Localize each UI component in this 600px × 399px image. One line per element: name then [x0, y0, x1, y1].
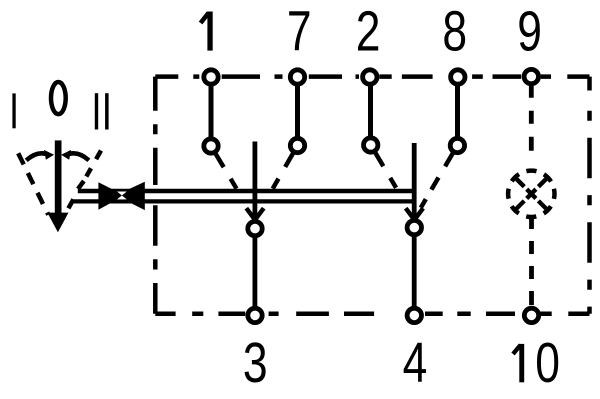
actuator rod pole 2 lower	[412, 236, 417, 307]
lamp X diagonal 2	[516, 179, 546, 209]
terminal 1	[204, 70, 218, 84]
actuator bar top line	[78, 189, 417, 194]
terminal 7	[290, 70, 304, 84]
position mark II bar1	[95, 93, 98, 129]
label 1	[201, 12, 213, 51]
wire terminal7 to fixed contact	[295, 80, 300, 142]
svg-text:0: 0	[535, 331, 560, 395]
fixed contact under 1	[204, 139, 218, 153]
fixed contact under 8	[450, 138, 464, 152]
svg-text:3: 3	[243, 331, 268, 395]
svg-text:8: 8	[442, 0, 467, 63]
movable contact arrow pole 2	[406, 208, 423, 219]
actuator arrow head	[47, 213, 68, 233]
actuator sector right dashed edge	[59, 151, 101, 225]
wire terminal1 to fixed contact	[209, 80, 214, 142]
svg-text:4: 4	[403, 331, 428, 395]
switch body outline (dash-dot box) top edge	[155, 74, 589, 79]
actuator sector left dashed edge	[18, 153, 48, 215]
bottom terminal 10	[524, 308, 538, 322]
bowtie white hourglass	[117, 192, 127, 200]
position mark II bar2	[105, 93, 109, 129]
position mark I	[12, 93, 15, 128]
movable contact circle pole 1	[248, 221, 262, 235]
actuator bar bottom line	[73, 199, 416, 203]
dashed throw line from contact 8	[417, 153, 453, 214]
right curved arrow tail	[70, 153, 89, 160]
terminal 8	[451, 70, 465, 84]
left curved arrow tail	[26, 153, 45, 160]
dashed throw line from contact 1	[216, 154, 251, 213]
terminal 9	[524, 69, 538, 83]
wire terminal8 to fixed contact	[455, 80, 460, 142]
bowtie arrow left triangle	[98, 182, 124, 209]
actuator rod pole 2	[412, 143, 417, 219]
movable contact arrow pole 1	[246, 208, 263, 219]
lamp dashed circle	[504, 166, 559, 221]
dashed throw line from contact 2	[375, 153, 410, 212]
switch body outline bottom edge	[155, 312, 589, 317]
dashed wire lamp to terminal 10	[529, 217, 534, 307]
fixed contact under 2	[364, 138, 378, 152]
switch body outline left edge	[153, 77, 158, 314]
label 10	[513, 331, 560, 395]
movable contact circle pole 2	[407, 220, 421, 234]
fixed contact under 7	[290, 138, 304, 152]
svg-text:7: 7	[287, 0, 312, 63]
right curved arrow head	[61, 150, 71, 160]
bottom terminal 4	[407, 308, 421, 322]
svg-text:9: 9	[517, 0, 542, 63]
bottom terminal 3	[248, 308, 262, 322]
switch body outline right edge	[587, 77, 592, 314]
position mark 0	[51, 82, 66, 114]
terminal 2	[363, 70, 377, 84]
bowtie arrow right triangle	[116, 182, 145, 210]
dashed throw line from contact 7	[259, 154, 293, 214]
left curved arrow head	[44, 150, 54, 160]
dashed wire terminal 9 to lamp	[529, 86, 534, 171]
actuator arrow shaft	[55, 140, 62, 215]
actuator rod pole 1	[252, 142, 257, 221]
lamp X diagonal 1	[516, 179, 546, 209]
actuator rod pole 1 lower	[252, 237, 257, 307]
svg-text:2: 2	[356, 0, 381, 63]
wire terminal2 to fixed contact	[368, 80, 373, 142]
